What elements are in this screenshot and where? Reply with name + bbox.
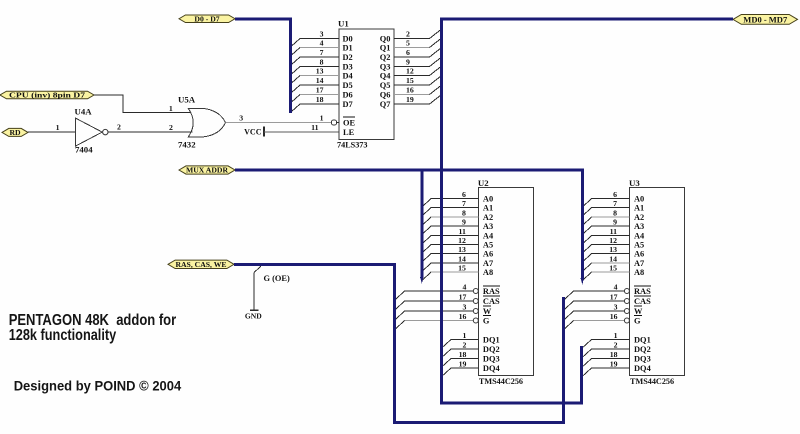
svg-text:A4: A4 [483, 232, 494, 241]
svg-text:16: 16 [406, 86, 414, 95]
svg-text:5: 5 [406, 39, 410, 48]
wire U1 pin 2 (Q0) output stub with bus entry [394, 29, 442, 39]
svg-text:RD: RD [9, 128, 21, 137]
bus pointed tip at bottom of U2 address branch [420, 277, 424, 284]
wire U2 pin 13 (A6) address stub with bus entry [422, 245, 479, 263]
svg-text:A5: A5 [634, 241, 644, 250]
wire OR gate output pin 3 to U1 OE bubble [226, 113, 332, 122]
U1 OE pin 1 bubble and label [320, 114, 356, 128]
wire U3 pin 15 (A8) address stub with bus entry [582, 263, 630, 281]
svg-text:7: 7 [613, 199, 617, 208]
wire U2 pin 4 (RAS) control wire with bus entry and bubble [396, 282, 478, 299]
svg-text:A1: A1 [483, 204, 493, 213]
svg-text:DQ1: DQ1 [483, 336, 500, 345]
svg-text:2: 2 [614, 340, 618, 349]
svg-text:A6: A6 [634, 250, 644, 259]
wire bus D0-D7: horizontal then vertical down left side of U1 [235, 19, 290, 113]
wire U3 pin 4 (RAS) control wire with bus entry and bubble [565, 282, 629, 299]
wire U3 pin 16 (G) control wire with bus entry and bubble [565, 312, 629, 329]
svg-text:3: 3 [239, 113, 243, 122]
wire U2 pin 19 (DQ4) data stub with bus entry [442, 359, 479, 376]
svg-text:G (OE): G (OE) [264, 274, 290, 283]
svg-text:D4: D4 [343, 72, 354, 81]
wire U3 pin 11 (A4) address stub with bus entry [582, 227, 630, 245]
wire U3 pin 19 (DQ4) data stub with bus entry [582, 359, 630, 376]
svg-text:A3: A3 [483, 222, 493, 231]
svg-text:TMS44C256: TMS44C256 [479, 377, 523, 386]
svg-text:17: 17 [316, 86, 324, 95]
label U2 pin name RAS with overline [483, 286, 500, 296]
svg-text:11: 11 [311, 123, 318, 132]
wire U2 pin 12 (A5) address stub with bus entry [422, 236, 479, 254]
svg-text:3: 3 [462, 302, 466, 311]
wire U2 pin 3 (W) control wire with bus entry and bubble [396, 302, 478, 319]
svg-text:18: 18 [610, 350, 618, 359]
net flag CPU (inv) 8pin D7 [0, 91, 94, 100]
svg-text:A1: A1 [634, 204, 644, 213]
svg-text:Q4: Q4 [380, 72, 392, 81]
svg-text:U1: U1 [338, 18, 349, 28]
svg-text:A6: A6 [483, 250, 493, 259]
wire U2 pin 6 (A0) address stub with bus entry [422, 190, 479, 208]
svg-text:Q5: Q5 [380, 81, 391, 90]
svg-text:14: 14 [458, 254, 466, 263]
svg-text:RAS: RAS [634, 287, 651, 296]
svg-text:12: 12 [458, 236, 466, 245]
svg-text:4: 4 [320, 39, 324, 48]
svg-text:1: 1 [169, 104, 173, 113]
svg-text:7432: 7432 [178, 140, 196, 150]
svg-text:U3: U3 [629, 178, 640, 188]
svg-text:15: 15 [406, 76, 414, 85]
svg-text:Q3: Q3 [380, 63, 391, 72]
svg-text:9: 9 [462, 217, 466, 226]
svg-text:19: 19 [459, 359, 467, 368]
label U2 pin name G with overline [483, 315, 491, 325]
svg-text:CPU (inv) 8pin D7: CPU (inv) 8pin D7 [9, 91, 85, 100]
wire U2 pin 14 (A7) address stub with bus entry [422, 254, 479, 272]
label U2 pin name CAS with overline [483, 296, 500, 306]
wire CPU (inv) 8pin D7 to OR gate pin 1 [94, 95, 191, 113]
svg-text:19: 19 [610, 359, 618, 368]
svg-text:Designed by POIND © 2004: Designed by POIND © 2004 [14, 379, 182, 394]
svg-text:RAS: RAS [483, 287, 500, 296]
wire U2 pin 16 (G) control wire with bus entry and bubble [396, 312, 478, 329]
or-gate U5A 7432 [178, 95, 226, 150]
svg-text:2: 2 [462, 340, 466, 349]
svg-text:D0: D0 [343, 35, 353, 44]
net flag MUX ADDR [179, 166, 235, 175]
svg-text:A3: A3 [634, 222, 644, 231]
svg-text:3: 3 [614, 302, 618, 311]
svg-text:A4: A4 [634, 232, 645, 241]
svg-text:CAS: CAS [483, 297, 500, 306]
wire U2 pin 18 (DQ3) data stub with bus entry [442, 350, 479, 367]
svg-text:15: 15 [458, 263, 466, 272]
svg-text:Q2: Q2 [380, 53, 391, 62]
power VCC tick [244, 127, 264, 137]
svg-text:1: 1 [462, 331, 466, 340]
svg-text:2: 2 [406, 30, 410, 39]
svg-text:Q1: Q1 [380, 44, 391, 53]
wire U1 pin 9 (Q3) output stub with bus entry [394, 57, 442, 67]
svg-text:TMS44C256: TMS44C256 [630, 377, 674, 386]
svg-text:1: 1 [320, 114, 324, 123]
svg-text:19: 19 [406, 95, 414, 104]
svg-text:D3: D3 [343, 63, 353, 72]
svg-text:VCC: VCC [244, 127, 262, 136]
svg-text:3: 3 [320, 30, 324, 39]
label U3 pin name W with overline [634, 306, 643, 316]
svg-text:128k functionality: 128k functionality [9, 327, 117, 344]
net flag RD [2, 128, 28, 137]
bus pointed tip at bottom of U3 address branch [581, 278, 585, 285]
wire U1 pin 18 (D7) input stub with bus entry [290, 95, 339, 112]
wire U1 pin 15 (Q5) output stub with bus entry [394, 76, 442, 86]
svg-text:W: W [483, 307, 492, 316]
svg-text:14: 14 [316, 76, 324, 85]
wire U2 pin 1 (DQ1) data stub with bus entry [442, 331, 479, 348]
svg-text:18: 18 [459, 350, 467, 359]
svg-text:11: 11 [459, 227, 466, 236]
dram U3 TMS44C256 body [629, 178, 685, 386]
svg-text:11: 11 [610, 227, 617, 236]
wire U3 pin 12 (A5) address stub with bus entry [582, 236, 630, 254]
wire U3 pin 1 (DQ1) data stub with bus entry [582, 331, 630, 348]
svg-text:8: 8 [320, 58, 324, 67]
svg-text:DQ2: DQ2 [483, 345, 500, 354]
svg-text:7: 7 [320, 48, 324, 57]
svg-text:U4A: U4A [75, 107, 93, 117]
label U3 pin name RAS with overline [634, 286, 651, 296]
ground symbol GND [245, 310, 262, 320]
wire U2 pin 7 (A1) address stub with bus entry [422, 199, 479, 217]
svg-text:6: 6 [462, 190, 466, 199]
svg-text:74LS373: 74LS373 [337, 140, 367, 149]
wire VCC to U1 LE pin 11 [264, 123, 339, 132]
svg-text:9: 9 [613, 217, 617, 226]
svg-text:MUX ADDR: MUX ADDR [186, 166, 229, 175]
wire U3 pin 13 (A6) address stub with bus entry [582, 245, 630, 263]
svg-text:A8: A8 [634, 268, 644, 277]
wire U1 pin 3 (D0) input stub with bus entry [290, 30, 339, 47]
svg-text:12: 12 [406, 67, 414, 76]
svg-text:D6: D6 [343, 91, 353, 100]
svg-text:DQ1: DQ1 [634, 336, 651, 345]
svg-text:7: 7 [462, 199, 466, 208]
svg-text:8: 8 [462, 208, 466, 217]
svg-text:13: 13 [316, 67, 324, 76]
svg-text:8: 8 [613, 208, 617, 217]
svg-text:RAS, CAS, WE: RAS, CAS, WE [175, 260, 226, 269]
svg-text:1: 1 [614, 331, 618, 340]
svg-text:17: 17 [459, 292, 467, 301]
svg-text:17: 17 [610, 292, 618, 301]
svg-text:OE: OE [343, 119, 356, 128]
wire U1 pin 5 (Q1) output stub with bus entry [394, 38, 442, 48]
svg-text:DQ4: DQ4 [483, 364, 501, 373]
svg-text:18: 18 [316, 95, 324, 104]
wire U1 pin 14 (D5) input stub with bus entry [290, 76, 339, 93]
svg-text:6: 6 [406, 48, 410, 57]
wire U3 pin 6 (A0) address stub with bus entry [582, 190, 630, 208]
svg-text:14: 14 [609, 254, 617, 263]
svg-text:A5: A5 [483, 241, 493, 250]
wire bus RAS,CAS,WE: right, down, across bottom, up to U3 control pins [234, 264, 563, 422]
svg-text:A0: A0 [634, 195, 644, 204]
wire U1 pin 13 (D4) input stub with bus entry [290, 67, 339, 84]
wire U1 pin 16 (Q6) output stub with bus entry [394, 85, 442, 95]
net flag D0 - D7 [179, 14, 235, 23]
svg-text:16: 16 [610, 312, 618, 321]
wire U2 pin 9 (A3) address stub with bus entry [422, 217, 479, 235]
wire U3 pin 14 (A7) address stub with bus entry [582, 254, 630, 272]
svg-text:Q0: Q0 [380, 35, 391, 44]
wire RD to inverter input, pin 1 [28, 123, 75, 132]
label U3 pin name CAS with overline [634, 296, 651, 306]
wire U3 pin 7 (A1) address stub with bus entry [582, 199, 630, 217]
wire U1 pin 12 (Q4) output stub with bus entry [394, 66, 442, 76]
wire inverter output to OR gate pin 2 [108, 123, 193, 132]
svg-text:12: 12 [609, 236, 617, 245]
wire bus MD0-MD7: from U1 outputs down and across to U3 DQ [442, 19, 733, 403]
wire U3 pin 8 (A2) address stub with bus entry [582, 208, 630, 226]
svg-text:15: 15 [609, 263, 617, 272]
svg-text:CAS: CAS [634, 297, 651, 306]
wire U3 pin 9 (A3) address stub with bus entry [582, 217, 630, 235]
label U3 pin name G with overline [634, 315, 642, 325]
svg-text:A0: A0 [483, 195, 493, 204]
svg-text:16: 16 [459, 312, 467, 321]
wire U1 pin 4 (D1) input stub with bus entry [290, 39, 339, 56]
svg-text:1: 1 [56, 123, 60, 132]
svg-text:W: W [634, 307, 643, 316]
dram U2 TMS44C256 body [478, 178, 534, 386]
svg-text:13: 13 [609, 245, 617, 254]
wire U3 pin 2 (DQ2) data stub with bus entry [582, 340, 630, 357]
svg-text:A2: A2 [634, 213, 644, 222]
svg-text:A2: A2 [483, 213, 493, 222]
svg-text:U2: U2 [478, 178, 489, 188]
wire U2 pin 15 (A8) address stub with bus entry [422, 263, 479, 281]
wire U3 pin 18 (DQ3) data stub with bus entry [582, 350, 630, 367]
svg-text:MD0 - MD7: MD0 - MD7 [743, 15, 788, 25]
svg-text:A7: A7 [483, 259, 493, 268]
svg-text:D1: D1 [343, 44, 353, 53]
svg-text:DQ3: DQ3 [634, 355, 651, 364]
svg-text:DQ4: DQ4 [634, 364, 652, 373]
svg-text:D7: D7 [343, 100, 353, 109]
svg-text:2: 2 [169, 123, 173, 132]
svg-text:GND: GND [245, 311, 262, 320]
wire U1 pin 17 (D6) input stub with bus entry [290, 86, 339, 103]
svg-text:13: 13 [458, 245, 466, 254]
wire U3 pin 3 (W) control wire with bus entry and bubble [565, 302, 629, 319]
svg-text:DQ2: DQ2 [634, 345, 651, 354]
svg-text:2: 2 [117, 123, 121, 132]
svg-text:9: 9 [406, 58, 410, 67]
svg-text:6: 6 [613, 190, 617, 199]
wire U2 pin 11 (A4) address stub with bus entry [422, 227, 479, 245]
svg-text:LE: LE [343, 128, 355, 137]
wire U1 pin 19 (Q7) output stub with bus entry [394, 95, 442, 105]
svg-text:Q6: Q6 [380, 91, 391, 100]
wire bus MUX ADDR branch down to U2 address pins [420, 169, 423, 278]
svg-text:Q7: Q7 [380, 100, 391, 109]
wire U2 pin 8 (A2) address stub with bus entry [422, 208, 479, 226]
label U2 pin name W with overline [483, 306, 492, 316]
wire G(OE) tap from RAS,CAS,WE bus down to ground [254, 266, 261, 310]
svg-text:U5A: U5A [178, 95, 196, 105]
svg-text:G: G [634, 317, 641, 326]
svg-text:A8: A8 [483, 268, 493, 277]
svg-text:A7: A7 [634, 259, 644, 268]
latch U1 74LS373 body [337, 18, 394, 149]
net flag RAS, CAS, WE [168, 260, 234, 269]
svg-text:D5: D5 [343, 81, 353, 90]
inverter U4A 7404 [75, 107, 109, 155]
wire bus MUX ADDR horizontal and down to U3 address pins [235, 170, 582, 279]
svg-text:7404: 7404 [75, 145, 93, 155]
wire U2 pin 17 (CAS) control wire with bus entry and bubble [396, 292, 478, 309]
svg-text:D2: D2 [343, 53, 353, 62]
svg-text:4: 4 [614, 282, 618, 291]
svg-text:DQ3: DQ3 [483, 355, 500, 364]
svg-text:D0 - D7: D0 - D7 [194, 14, 219, 23]
wire U2 pin 2 (DQ2) data stub with bus entry [442, 340, 479, 357]
wire U1 pin 7 (D2) input stub with bus entry [290, 48, 339, 65]
svg-text:G: G [483, 317, 490, 326]
net flag MD0 - MD7 [733, 15, 798, 25]
wire U1 pin 8 (D3) input stub with bus entry [290, 58, 339, 75]
wire U3 pin 17 (CAS) control wire with bus entry and bubble [565, 292, 629, 309]
wire U1 pin 6 (Q2) output stub with bus entry [394, 48, 442, 58]
svg-text:4: 4 [462, 282, 466, 291]
